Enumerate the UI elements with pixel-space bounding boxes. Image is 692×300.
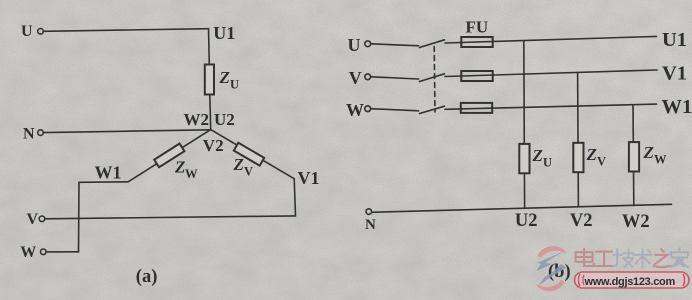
impedance Z_W box (b) xyxy=(629,142,639,171)
svg-text:V2: V2 xyxy=(203,136,224,155)
svg-text:U1: U1 xyxy=(213,23,235,43)
svg-text:W: W xyxy=(20,244,36,261)
switch gang dashed link (b) xyxy=(433,47,436,113)
wire U to switch (b) xyxy=(371,44,419,46)
svg-text:W: W xyxy=(654,153,667,167)
svg-text:FU: FU xyxy=(466,18,489,37)
watermark logo swirl xyxy=(536,246,567,291)
wire U through fuse to U1 (b) xyxy=(445,36,657,43)
terminal V (a) xyxy=(39,216,45,222)
fuse FU W (b) xyxy=(461,103,492,113)
svg-text:U: U xyxy=(348,35,361,55)
wire W tap down (b) xyxy=(632,105,635,206)
svg-text:W1: W1 xyxy=(95,163,122,183)
svg-text:U2: U2 xyxy=(214,110,235,129)
svg-text:(b): (b) xyxy=(548,262,571,282)
terminal U (a) xyxy=(38,29,44,35)
svg-text:U: U xyxy=(21,23,33,40)
fuse FU U (b) xyxy=(461,37,492,47)
wire W to switch (b) xyxy=(371,109,419,111)
svg-text:Z: Z xyxy=(532,146,543,165)
svg-text:V: V xyxy=(244,164,253,178)
svg-text:Z: Z xyxy=(233,155,244,174)
impedance Z_V box (b) xyxy=(573,143,583,172)
svg-text:Z: Z xyxy=(586,145,597,164)
svg-text:V1: V1 xyxy=(662,63,687,85)
wire Z_U to star node (a) xyxy=(209,95,212,130)
svg-text:N: N xyxy=(23,126,35,143)
svg-text:Z: Z xyxy=(219,68,230,87)
svg-text:W2: W2 xyxy=(184,110,210,129)
switch blade U (b) xyxy=(420,40,445,48)
impedance Z_U box (a) xyxy=(205,65,214,95)
terminal N (b) xyxy=(366,209,372,215)
wire V tap down (b) xyxy=(577,72,580,206)
wire corner down to Z_U (a) xyxy=(208,29,211,65)
wire V to switch (b) xyxy=(371,77,419,79)
svg-text:www.dgjs123.com: www.dgjs123.com xyxy=(584,276,676,288)
svg-text:W: W xyxy=(346,100,364,120)
svg-text:V: V xyxy=(597,154,606,168)
wire W1 horizontal (a) xyxy=(79,181,128,184)
技 xyxy=(614,250,634,267)
家 xyxy=(671,249,688,268)
terminal U (b) xyxy=(365,41,371,47)
svg-text:V2: V2 xyxy=(570,211,593,231)
wire star node to Z_V diagonal (a) xyxy=(211,130,295,179)
svg-text:N: N xyxy=(365,217,376,233)
svg-text:U: U xyxy=(543,155,552,169)
switch blade W (b) xyxy=(420,106,445,113)
svg-text:W2: W2 xyxy=(622,212,650,232)
svg-text:W: W xyxy=(185,167,198,181)
wire star node to Z_W diagonal (a) xyxy=(128,130,211,182)
wire U to corner (a) xyxy=(43,29,208,32)
terminal V (b) xyxy=(365,74,371,80)
terminal N (a) xyxy=(38,130,44,136)
svg-text:W1: W1 xyxy=(662,96,692,118)
电 xyxy=(576,249,594,266)
工 xyxy=(595,252,614,266)
terminal W (b) xyxy=(365,106,371,112)
watermark banner www.dgjs123.com xyxy=(575,272,690,288)
svg-text:V: V xyxy=(349,68,362,88)
svg-text:Z: Z xyxy=(174,158,185,177)
wire V long horizontal (a) xyxy=(45,216,296,219)
svg-text:V: V xyxy=(27,211,39,228)
wire N to star node (a) xyxy=(43,130,210,133)
wire U tap down (b) xyxy=(523,41,526,208)
术 xyxy=(634,250,652,268)
svg-text:U: U xyxy=(230,78,239,92)
impedance Z_V box (a) xyxy=(234,143,264,166)
fuse FU V (b) xyxy=(461,71,492,81)
impedance Z_U box (b) xyxy=(519,144,529,173)
svg-text:Z: Z xyxy=(643,143,654,162)
impedance Z_W box (a) xyxy=(154,144,184,168)
wire V through fuse to V1 (b) xyxy=(445,70,657,77)
之 xyxy=(654,249,671,267)
svg-text:U2: U2 xyxy=(515,211,538,231)
wire neutral bottom line (b) xyxy=(372,204,672,212)
wire W1 down (a) xyxy=(78,182,81,252)
svg-text:U1: U1 xyxy=(662,29,687,51)
wire W to corner (a) xyxy=(46,251,78,253)
watermark text 电工技术之家 xyxy=(576,249,688,268)
svg-text:V1: V1 xyxy=(298,168,320,188)
terminal W (a) xyxy=(41,249,47,255)
switch blade V (b) xyxy=(420,74,445,82)
svg-text:(a): (a) xyxy=(136,267,158,287)
wire V1 down (a) xyxy=(294,179,295,216)
wire W through fuse to W1 (b) xyxy=(445,104,657,109)
